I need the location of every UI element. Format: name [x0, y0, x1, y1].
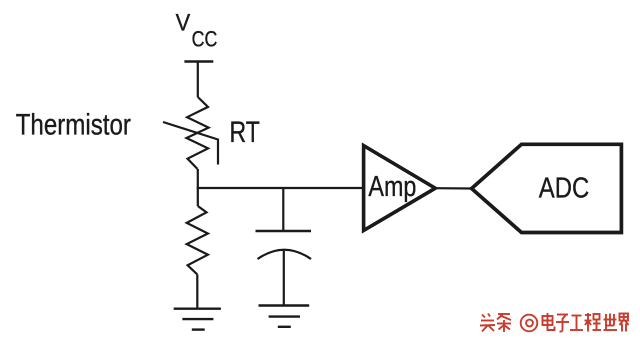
ADC block	[472, 144, 622, 232]
子	[556, 315, 569, 332]
电	[543, 313, 555, 330]
ground (left, under R2)	[174, 309, 221, 330]
svg-text:Amp: Amp	[368, 171, 416, 203]
条	[497, 314, 511, 332]
界	[620, 314, 629, 332]
wire: amp output to ADC input	[435, 187, 472, 190]
svg-text:V: V	[176, 10, 191, 37]
capacitor C1 top plate	[256, 230, 312, 233]
wire: VCC bar to thermistor top	[197, 62, 199, 98]
thermistor RT zigzag	[187, 97, 209, 169]
wire: thermistor bottom to node A	[197, 169, 199, 188]
power VCC label	[176, 10, 218, 52]
wire: node A down to resistor R2	[197, 188, 199, 206]
thermistor diagonal stroke	[163, 122, 218, 165]
VCC supply terminal bar	[184, 60, 213, 63]
头	[480, 314, 495, 332]
svg-text:ADC: ADC	[539, 172, 589, 204]
svg-text:CC: CC	[192, 27, 218, 52]
node A horizontal wire to amp input	[197, 187, 364, 189]
wire: node A down to capacitor C1	[282, 188, 284, 231]
op-amp U1 (Amp) triangle	[364, 146, 436, 231]
capacitor C1 curved plate	[258, 250, 312, 259]
svg-text:Thermistor: Thermistor	[16, 108, 131, 141]
wire: resistor R2 to ground	[196, 274, 198, 308]
工	[570, 316, 583, 331]
ground (right, under C1)	[259, 306, 310, 327]
世	[604, 314, 618, 331]
resistor R2 zigzag	[187, 206, 208, 274]
wire: capacitor C1 to ground	[283, 251, 285, 306]
svg-text:RT: RT	[230, 116, 260, 149]
@	[521, 315, 538, 332]
watermark 头条@电子工程世界 (red)	[480, 313, 629, 332]
程	[585, 313, 602, 332]
